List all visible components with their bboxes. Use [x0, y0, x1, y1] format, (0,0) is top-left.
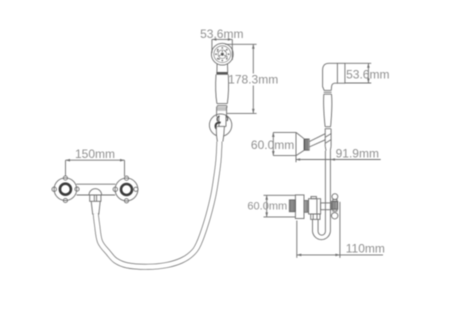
- front view: wall bracket circle: [209, 114, 231, 136]
- side view: diverter neck: [321, 203, 332, 210]
- dimension 110mm: [297, 202, 385, 258]
- side view: handle edge-on: [331, 194, 338, 219]
- dimension 60.0mm lower (valve plate): [247, 195, 295, 217]
- svg-text:110mm: 110mm: [346, 242, 385, 256]
- side view: valve wall plate: [289, 195, 304, 219]
- hose (front view big sweep): [96, 142, 220, 267]
- front view: handset neck: [216, 64, 228, 75]
- dimension 91.9mm: [296, 146, 381, 162]
- dimension 53.6mm top (front handset head width): [200, 27, 243, 60]
- side view: wall bracket cone: [296, 132, 325, 155]
- side view: valve ribbed collar: [304, 201, 309, 213]
- svg-text:53.6mm: 53.6mm: [346, 68, 389, 82]
- side view: hose from handset down: [325, 151, 330, 229]
- side view: handset collar rings: [324, 90, 332, 94]
- dimension 53.6mm side (head height): [345, 63, 389, 83]
- mixer front: body bar: [76, 184, 115, 195]
- side view: handset head cap: [337, 63, 345, 83]
- mixer front: left handle: [52, 176, 79, 203]
- side view: handset handle barrel: [324, 94, 332, 129]
- mixer front: right handle: [113, 176, 138, 203]
- svg-text:60.0mm: 60.0mm: [251, 138, 294, 152]
- side view: outlet nut under valve: [311, 214, 320, 219]
- dimension 60.0mm upper (bracket): [251, 132, 296, 155]
- front view: handset handle: [216, 75, 229, 117]
- svg-text:91.9mm: 91.9mm: [336, 146, 379, 160]
- side view: handle end in clip: [325, 129, 331, 151]
- front view: shower head: [211, 43, 233, 65]
- dimension 178.3mm (front handset length): [225, 44, 278, 113]
- dimension 150mm (mixer handle centres): [66, 147, 125, 176]
- side view: handset elbow: [323, 63, 338, 90]
- svg-text:150mm: 150mm: [75, 147, 115, 161]
- side view: hose U loop under valve: [313, 219, 331, 239]
- side view: valve body: [309, 197, 321, 215]
- svg-text:178.3mm: 178.3mm: [228, 73, 278, 87]
- mixer front: outlet dome and nut: [89, 189, 102, 215]
- svg-text:60.0mm: 60.0mm: [247, 200, 287, 212]
- front view: hose outlet below bracket: [216, 126, 225, 141]
